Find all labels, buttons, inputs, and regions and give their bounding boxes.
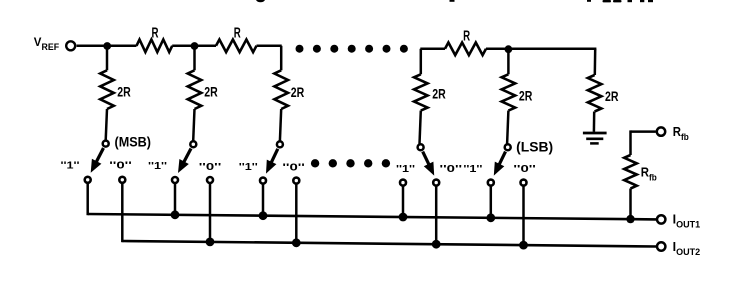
svg-text:2R: 2R bbox=[291, 84, 305, 100]
wire S2 "1" contact to IOUT1 bus bbox=[174, 183, 177, 216]
svg-text:''0'': ''0'' bbox=[513, 163, 536, 175]
switch S5 pivot bbox=[505, 144, 511, 150]
terminal Rfb bbox=[657, 127, 665, 135]
switch S1 pivot bbox=[103, 141, 109, 147]
svg-text:''1'': ''1'' bbox=[148, 160, 167, 172]
junction Rfb on IOUT1 bus bbox=[626, 215, 634, 223]
resistor 2R col2 bbox=[188, 70, 202, 109]
wire node to 2R col1 (MSB) bbox=[106, 46, 109, 71]
wire R3 to col6 corner bbox=[486, 48, 596, 51]
switch S3 contact "1" bbox=[260, 178, 266, 184]
switch S5 contact "1" bbox=[488, 180, 494, 186]
wire S4 "1" contact to IOUT1 bus bbox=[402, 186, 405, 218]
switch S5 contact "0" bbox=[521, 180, 527, 186]
terminal IOUT2 bbox=[657, 242, 665, 250]
svg-text:Rfb: Rfb bbox=[641, 166, 657, 183]
wire node to 2R col4 bbox=[420, 49, 423, 75]
wire VREF to node A bbox=[77, 45, 137, 48]
junction S3 on IOUT1 bus bbox=[259, 211, 268, 220]
wire 2R to switch pivot col3 bbox=[280, 109, 281, 141]
switch S4 wiper arrow (to "0") bbox=[423, 152, 435, 176]
wire R1 to R2 bbox=[172, 45, 216, 48]
svg-text:Rfb: Rfb bbox=[673, 125, 689, 142]
switch S1 contact "0" bbox=[119, 177, 125, 183]
resistor 2R col4 bbox=[414, 74, 428, 110]
wire IOUT1 bus bbox=[88, 214, 656, 219]
svg-text:2R: 2R bbox=[117, 84, 131, 100]
wire IOUT2 bus bbox=[122, 241, 656, 247]
wire 2R col6 to ground bbox=[593, 112, 596, 132]
resistor R3 bbox=[445, 43, 486, 56]
wire col6 corner to 2R bbox=[594, 49, 597, 75]
terminal VREF bbox=[66, 41, 75, 50]
wire Rfb terminal to resistor bbox=[631, 130, 656, 155]
switch S2 pivot bbox=[190, 141, 196, 147]
wire 2R to switch pivot col5 (LSB) bbox=[507, 111, 508, 144]
svg-text:''1'': ''1'' bbox=[463, 163, 482, 175]
svg-text:''0'': ''0'' bbox=[282, 162, 305, 174]
svg-text:R: R bbox=[234, 25, 241, 41]
wire S4 "0" contact to IOUT2 bus bbox=[435, 186, 438, 246]
terminal IOUT1 bbox=[657, 215, 665, 223]
svg-text:''0'': ''0'' bbox=[440, 163, 463, 175]
svg-text:R: R bbox=[152, 25, 159, 41]
switch S2 contact "1" bbox=[172, 177, 178, 183]
wire S1 "1" contact to IOUT1 bus bbox=[86, 183, 89, 215]
svg-text:''0'': ''0'' bbox=[199, 161, 222, 173]
wire node to 2R col5 (LSB) bbox=[507, 49, 510, 74]
svg-text:2R: 2R bbox=[204, 84, 218, 100]
svg-text:2R: 2R bbox=[432, 86, 446, 102]
svg-text:IOUT2: IOUT2 bbox=[673, 240, 701, 257]
wire S1 "0" contact to IOUT2 bus bbox=[121, 183, 124, 242]
svg-text:VREF: VREF bbox=[34, 37, 60, 52]
resistor R1 bbox=[137, 40, 173, 53]
wire 2R to switch pivot col4 bbox=[420, 111, 421, 144]
svg-text:R: R bbox=[463, 28, 470, 44]
wire 2R to switch pivot col1 (MSB) bbox=[106, 109, 107, 140]
node B (junction / 2R col2) bbox=[191, 42, 199, 50]
switch S3 wiper arrow (to "1") bbox=[266, 149, 278, 174]
junction S4 on IOUT2 bus bbox=[432, 240, 441, 249]
wire node to 2R col2 bbox=[193, 46, 196, 70]
resistor 2R col1 (MSB) bbox=[100, 70, 114, 109]
ellipsis (switches continue) bbox=[311, 159, 390, 167]
svg-text:IOUT1: IOUT1 bbox=[673, 213, 701, 230]
svg-text:(MSB): (MSB) bbox=[115, 135, 152, 150]
wire col4 corner to R3 bbox=[420, 48, 445, 51]
switch S4 contact "0" bbox=[433, 180, 439, 186]
svg-text:2R: 2R bbox=[519, 88, 533, 104]
wire R2 to col3 corner bbox=[257, 45, 282, 48]
svg-text:(LSB): (LSB) bbox=[516, 139, 553, 154]
wire Rfb resistor to IOUT1 bus bbox=[629, 189, 632, 220]
switch S3 pivot bbox=[277, 141, 283, 147]
svg-text:''1'': ''1'' bbox=[239, 161, 258, 173]
svg-text:''1'': ''1'' bbox=[396, 163, 415, 175]
switch S4 pivot bbox=[418, 144, 424, 150]
switch S5 wiper arrow (to "1") bbox=[494, 152, 506, 176]
wire S3 "1" contact to IOUT1 bus bbox=[262, 184, 265, 217]
wire S2 "0" contact to IOUT2 bus bbox=[209, 183, 212, 243]
switch S2 wiper arrow (to "1") bbox=[178, 149, 191, 174]
node A (junction VREF / 2R col1) bbox=[103, 42, 111, 50]
resistor R2 bbox=[216, 40, 257, 53]
switch S1 contact "1" bbox=[85, 177, 91, 183]
junction S3 on IOUT2 bus bbox=[292, 238, 301, 247]
node C (junction / 2R col5) bbox=[505, 45, 513, 53]
junction S2 on IOUT1 bus bbox=[171, 210, 180, 219]
wire 2R to switch pivot col2 bbox=[193, 109, 194, 141]
junction S5 on IOUT1 bus bbox=[486, 213, 495, 222]
svg-text:''1'': ''1'' bbox=[61, 160, 80, 172]
ground bbox=[583, 133, 607, 143]
resistor 2R col3 bbox=[274, 70, 288, 109]
switch S3 contact "0" bbox=[293, 178, 299, 184]
wire S5 "1" contact to IOUT1 bus bbox=[490, 186, 493, 219]
resistor 2R col6 (termination) bbox=[588, 75, 602, 112]
switch S2 contact "0" bbox=[207, 177, 213, 183]
resistor Rfb bbox=[624, 155, 637, 189]
junction S5 on IOUT2 bus bbox=[519, 241, 528, 250]
ellipsis (ladder continues) bbox=[296, 45, 408, 53]
svg-text:2R: 2R bbox=[605, 88, 619, 104]
switch S1 wiper arrow (to "1") bbox=[91, 148, 104, 173]
wire S3 "0" contact to IOUT2 bus bbox=[295, 184, 298, 244]
wire node to 2R col3 bbox=[280, 46, 283, 71]
wire S5 "0" contact to IOUT2 bus bbox=[522, 186, 525, 247]
junction S4 on IOUT1 bus bbox=[399, 213, 408, 222]
resistor 2R col5 (LSB) bbox=[502, 74, 516, 110]
text fragment (cut-off caption at top edge) bbox=[256, 0, 653, 2]
junction S2 on IOUT2 bus bbox=[206, 238, 215, 247]
switch S4 contact "1" bbox=[400, 180, 406, 186]
svg-text:''0'': ''0'' bbox=[109, 160, 132, 172]
